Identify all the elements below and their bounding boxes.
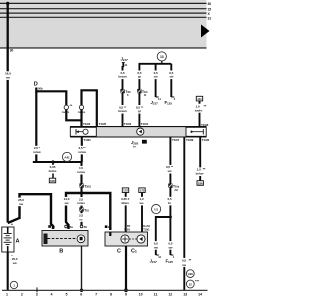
svg-text:B+: B+ bbox=[108, 225, 112, 229]
wire: battery to starter cable 25,0 sw bbox=[8, 194, 53, 229]
svg-text:T10/6: T10/6 bbox=[202, 138, 210, 142]
wire: drop to J217 second bbox=[155, 64, 157, 97]
svg-text:ws: ws bbox=[139, 201, 144, 205]
svg-text:sw: sw bbox=[19, 202, 24, 206]
svg-text:30: 30 bbox=[10, 49, 14, 53]
wire label 25,0 sw (earth cable) bbox=[10, 257, 20, 266]
boxed connection 173 bbox=[139, 188, 145, 193]
left connection box in bar bbox=[70, 127, 96, 136]
wire: bar to boxed 186 bbox=[199, 137, 201, 181]
wire: alternator to ground rail bbox=[125, 246, 127, 290]
svg-text:ro: ro bbox=[80, 217, 83, 221]
wire label 0,5 gr bbox=[136, 71, 143, 80]
relay plate bar bbox=[70, 126, 207, 137]
band continuation arrow bbox=[201, 25, 210, 38]
svg-text:DF: DF bbox=[127, 224, 131, 228]
pin stub 11 bbox=[122, 63, 124, 68]
ground rail bbox=[2, 289, 208, 291]
svg-text:sw: sw bbox=[154, 75, 159, 79]
wire: battery supply from bus 30 bbox=[7, 3, 9, 222]
svg-text:7: 7 bbox=[95, 292, 97, 296]
svg-text:T10/5: T10/5 bbox=[99, 122, 107, 126]
wire label 0,35 bl/ws bbox=[119, 197, 131, 206]
bus bar 30 bbox=[0, 2, 207, 4]
svg-text:br/sw: br/sw bbox=[196, 172, 204, 176]
svg-text:11: 11 bbox=[154, 292, 158, 296]
wire: relay bar down-left output bbox=[81, 137, 83, 162]
svg-text:645: 645 bbox=[50, 179, 55, 183]
bus bar X bbox=[0, 12, 207, 14]
svg-text:T10/1: T10/1 bbox=[143, 227, 150, 231]
wire: heavy link bar to starter/alternator bbox=[66, 193, 110, 230]
svg-text:T10/2: T10/2 bbox=[83, 122, 91, 126]
svg-text:15a: 15a bbox=[68, 225, 73, 229]
svg-text:ro/sw: ro/sw bbox=[33, 150, 41, 154]
rail tick bbox=[36, 287, 38, 292]
wire: second connector down to relay plate bbox=[80, 110, 82, 127]
wire: D down branch bbox=[35, 91, 37, 162]
ground point circle 1 bbox=[10, 281, 17, 288]
ground point circle upper bbox=[186, 270, 194, 278]
svg-text:2: 2 bbox=[21, 292, 23, 296]
svg-text:T10/1: T10/1 bbox=[124, 227, 131, 231]
svg-text:sw/ro: sw/ro bbox=[195, 109, 203, 113]
svg-text:sw: sw bbox=[13, 261, 18, 265]
wire: terminal 50 column bbox=[80, 194, 82, 226]
svg-text:T10/3: T10/3 bbox=[124, 122, 132, 126]
connector C in D wire bbox=[64, 105, 68, 109]
terminal 50 of B bbox=[80, 225, 83, 228]
svg-text:9: 9 bbox=[125, 292, 127, 296]
connection point circle 13 bbox=[161, 59, 163, 64]
svg-text:sw: sw bbox=[168, 245, 173, 249]
connector C second bbox=[79, 105, 83, 109]
bus bar 31 bbox=[0, 16, 207, 18]
pin foot 14 bbox=[156, 96, 159, 98]
connector T10a/16 bbox=[169, 184, 180, 192]
wire: branch loop upper bbox=[82, 90, 97, 126]
svg-text:13: 13 bbox=[160, 55, 164, 59]
wire label 2,5 ro/ws bbox=[76, 197, 87, 206]
wire label 0,5 sw bbox=[152, 241, 159, 250]
svg-text:sw: sw bbox=[182, 263, 187, 267]
terminal 30 of B bbox=[48, 225, 51, 228]
wire label 0,5 ** sw bbox=[180, 258, 192, 267]
connector T10/1 mid bbox=[80, 184, 92, 189]
svg-text:1: 1 bbox=[6, 292, 8, 296]
ground point circle lower bbox=[186, 280, 194, 288]
wire: D+ bbox=[141, 193, 143, 233]
wire label 14,0 sw bbox=[62, 197, 71, 206]
wire: second sensor column bbox=[138, 64, 140, 127]
connection A41 circle bbox=[62, 152, 71, 161]
node: junction dot on bus 30 bbox=[6, 2, 9, 5]
svg-text:braun: braun bbox=[118, 75, 126, 79]
boxed connection 186 bbox=[197, 181, 203, 186]
svg-text:13: 13 bbox=[183, 292, 187, 296]
svg-text:T10/1: T10/1 bbox=[84, 138, 92, 142]
svg-text:50: 50 bbox=[84, 225, 88, 229]
battery A bbox=[2, 227, 14, 252]
wire label 1,0 ** sw/ro bbox=[194, 104, 207, 113]
svg-text:A90: A90 bbox=[188, 272, 193, 276]
svg-text:111: 111 bbox=[197, 97, 202, 101]
plus connection boxed 111 bbox=[196, 96, 202, 101]
wire label 0,5 braun bbox=[117, 71, 128, 80]
node: junction dot on branch bbox=[169, 216, 172, 219]
svg-text:3: 3 bbox=[36, 292, 38, 296]
junction dot bbox=[51, 160, 54, 163]
svg-text:J217: J217 bbox=[121, 56, 129, 62]
svg-text:T10/1: T10/1 bbox=[84, 184, 91, 188]
wire label 0,5 sw bbox=[152, 71, 159, 80]
junction line A41 bbox=[33, 161, 82, 163]
svg-text:186: 186 bbox=[198, 181, 203, 185]
wire: branch to J217 foot bbox=[156, 217, 171, 255]
boxed connection 645 bbox=[49, 178, 55, 183]
svg-text:14: 14 bbox=[198, 292, 202, 296]
svg-text:U1: U1 bbox=[154, 208, 158, 212]
wire: connector to collector bbox=[66, 110, 81, 121]
svg-text:bl/ws: bl/ws bbox=[122, 201, 130, 205]
svg-text:A: A bbox=[16, 239, 20, 245]
bus bar 15 bbox=[0, 8, 207, 10]
wire: battery minus to ground rail bbox=[7, 252, 9, 290]
terminal B+ label bbox=[105, 225, 108, 228]
wire label 0,5 ** braun bbox=[117, 105, 129, 114]
svg-text:A41: A41 bbox=[64, 155, 70, 159]
svg-text:D+/61: D+/61 bbox=[143, 224, 150, 228]
connector colour label bbox=[76, 110, 87, 115]
svg-text:12: 12 bbox=[168, 292, 172, 296]
right connection box in bar bbox=[186, 127, 206, 136]
svg-text:T10/9: T10/9 bbox=[186, 138, 194, 142]
wire label 1,0 br/sw bbox=[194, 167, 206, 176]
wire label 25,0 sw bbox=[16, 198, 25, 207]
wire: bar output to J217/F125 bbox=[169, 137, 171, 255]
wire label 16,0 sw bbox=[3, 71, 12, 80]
svg-text:+: + bbox=[11, 222, 13, 226]
wire label 2,5 * ro/sw (D branch) bbox=[31, 146, 43, 155]
svg-text:C: C bbox=[117, 249, 121, 255]
starter B box bbox=[42, 231, 88, 247]
wire: D to branch (right) bbox=[36, 88, 66, 106]
svg-text:T10/7: T10/7 bbox=[172, 138, 180, 142]
svg-text:br/ws: br/ws bbox=[49, 169, 57, 173]
wire: J217 pin down bbox=[122, 66, 124, 127]
svg-text:sw: sw bbox=[169, 75, 174, 79]
svg-text:sw: sw bbox=[6, 76, 11, 80]
svg-text:F125: F125 bbox=[166, 259, 174, 265]
wire: drop with boxed 645 bbox=[52, 162, 54, 178]
wire: A41 to bar 2 (x=81.5) bbox=[80, 162, 82, 194]
svg-text:30: 30 bbox=[208, 2, 212, 6]
svg-text:sw: sw bbox=[168, 169, 173, 173]
wire label 0,5 sw bbox=[168, 71, 175, 80]
connector T10/5 mid bbox=[80, 208, 90, 213]
wire: drop to F125 bbox=[170, 64, 172, 97]
connector T10/6 bbox=[121, 89, 131, 97]
wire label 0,5 sw bbox=[167, 241, 174, 250]
svg-text:T10/8: T10/8 bbox=[201, 123, 209, 127]
svg-text:ro/sw: ro/sw bbox=[77, 170, 85, 174]
svg-text:5: 5 bbox=[65, 292, 67, 296]
pin foot 13 bbox=[156, 254, 159, 256]
svg-text:braun: braun bbox=[118, 109, 126, 113]
top supply band (central electrics) bbox=[0, 0, 207, 49]
svg-text:J217: J217 bbox=[150, 259, 158, 265]
track numbers bbox=[6, 292, 202, 296]
svg-text:B: B bbox=[59, 248, 63, 254]
wire label 0,5 br bbox=[166, 197, 173, 206]
svg-text:10: 10 bbox=[139, 292, 143, 296]
svg-text:4: 4 bbox=[51, 292, 53, 296]
svg-text:***: *** bbox=[195, 279, 200, 283]
svg-text:sw: sw bbox=[154, 245, 159, 249]
wire label 0,35 br/ws bbox=[47, 165, 58, 174]
alternator C / regulator C1 box bbox=[105, 232, 148, 246]
wire: starter solenoid to ground rail bbox=[81, 246, 83, 290]
svg-text:T10: T10 bbox=[84, 208, 89, 212]
boxed connection 172 bbox=[122, 188, 128, 193]
pin foot 5 bbox=[171, 96, 174, 98]
wire: bar to ground (0,5 sw) bbox=[183, 137, 185, 290]
svg-text:50b: 50b bbox=[38, 86, 43, 90]
svg-text:0,5: 0,5 bbox=[182, 259, 186, 263]
svg-text:6: 6 bbox=[80, 292, 82, 296]
svg-text:8: 8 bbox=[110, 292, 112, 296]
svg-text:30: 30 bbox=[52, 225, 56, 229]
wire label 0,5 ** sw bbox=[164, 165, 176, 174]
svg-text:sw: sw bbox=[65, 201, 70, 205]
wire label 1,5 ro/sw bbox=[76, 166, 87, 175]
wire label 1,0 ws bbox=[138, 197, 145, 206]
svg-text:ro/sw: ro/sw bbox=[78, 150, 86, 154]
svg-text:ro/ws: ro/ws bbox=[77, 201, 85, 205]
connector colour label bbox=[60, 110, 71, 115]
wire: DF bbox=[125, 193, 127, 233]
wire: boxed 111 to relay bar bbox=[199, 101, 201, 127]
svg-text:12: 12 bbox=[189, 282, 192, 286]
centre circle symbol in bar bbox=[137, 128, 144, 135]
wire label 0,5 ** gr bbox=[133, 105, 145, 114]
continuation black square bbox=[142, 140, 147, 144]
svg-text:F125: F125 bbox=[165, 100, 173, 106]
connector T10/11 bbox=[138, 89, 148, 97]
svg-text:15: 15 bbox=[208, 8, 212, 12]
wire label 2,5 ** ro/sw bbox=[76, 146, 88, 155]
svg-text:T10/4: T10/4 bbox=[141, 122, 149, 126]
svg-text:173: 173 bbox=[140, 189, 145, 193]
wire label 2,5 ro bbox=[77, 213, 84, 222]
node: top distribution line bbox=[139, 63, 172, 65]
pin foot 1 bbox=[170, 254, 173, 256]
terminal 15a of B bbox=[65, 225, 68, 228]
svg-text:172: 172 bbox=[123, 189, 128, 193]
svg-text:J217: J217 bbox=[151, 100, 159, 106]
svg-text:31: 31 bbox=[208, 16, 212, 20]
connection point circle U1 bbox=[152, 205, 161, 214]
